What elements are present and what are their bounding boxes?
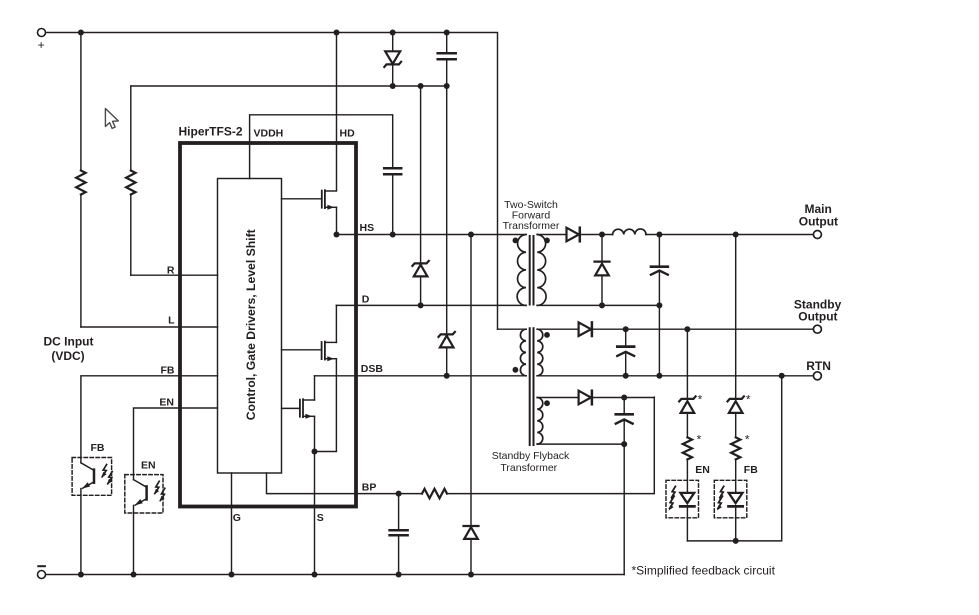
wire D pin xyxy=(336,304,526,306)
node junction standby output / EN branch xyxy=(684,326,690,332)
node junction RTN / main return xyxy=(656,373,662,379)
node junction input rail / R1 xyxy=(78,30,84,36)
svg-text:+: + xyxy=(38,38,45,52)
wire feedback common return xyxy=(687,376,781,541)
diode D1 forward rectifier xyxy=(567,228,579,242)
diode D5 clamp xyxy=(470,235,472,527)
wire S pin xyxy=(314,452,316,575)
light arrows into EN opto xyxy=(154,481,165,502)
node junction ground / FB opto xyxy=(78,572,84,578)
wire T1 secondary bottom xyxy=(537,304,659,306)
resistor R5 FB branch xyxy=(731,437,740,459)
svg-text:D: D xyxy=(362,293,370,305)
node junction main output / FB branch xyxy=(733,232,739,238)
wire top rail xyxy=(46,33,498,330)
LED U2 FB optocoupler diode xyxy=(714,480,747,518)
inductor L1 xyxy=(613,229,646,235)
wire standby secondary top xyxy=(537,328,578,330)
svg-text:G: G xyxy=(233,512,241,524)
svg-text:Control, Gate Drivers, Level S: Control, Gate Drivers, Level Shift xyxy=(244,229,258,420)
node junction ground / S pin xyxy=(312,572,318,578)
op-amp U1 HiperTFS-2 IC outline xyxy=(180,143,356,507)
capacitor C6 bias xyxy=(623,398,625,413)
wire HD pin xyxy=(336,33,338,191)
node junction forward return / D2 xyxy=(599,302,605,308)
wire EN sense branch xyxy=(686,329,688,399)
capacitor C1 xyxy=(384,167,401,170)
node junction ground / EN opto xyxy=(131,572,137,578)
diode D2 freewheel xyxy=(601,235,603,262)
node DC input minus terminal xyxy=(38,571,46,579)
zener VR1 xyxy=(392,33,394,52)
svg-text:BP: BP xyxy=(362,481,377,493)
node T1 secondary phase dot xyxy=(544,238,550,244)
node junction main output / C4 xyxy=(656,232,662,238)
wire bias winding bottom xyxy=(537,444,624,574)
node T2 primary phase dot xyxy=(513,367,519,373)
node junction sense rail / VR1 xyxy=(390,83,396,89)
svg-text:L: L xyxy=(168,315,175,327)
node junction forward return / C4 xyxy=(656,302,662,308)
node junction feedback common xyxy=(733,538,739,544)
node junction ground / clamp diode xyxy=(468,572,474,578)
node junction standby output / C5 xyxy=(623,326,629,332)
wire main output line xyxy=(646,234,813,236)
svg-text:*: * xyxy=(746,393,751,407)
svg-text:Output: Output xyxy=(798,310,837,324)
wire standby output line xyxy=(592,328,814,330)
svg-text:EN: EN xyxy=(159,397,174,409)
wire BP pin xyxy=(267,473,423,494)
node T2 bias winding phase dot xyxy=(544,400,550,406)
svg-text:DSB: DSB xyxy=(361,363,384,375)
node T2 standby secondary phase dot xyxy=(544,332,550,338)
node junction HS / Q1 source xyxy=(334,232,340,238)
mouse cursor xyxy=(105,109,118,129)
LED U3 EN optocoupler diode xyxy=(666,480,699,518)
wire bias winding top xyxy=(537,397,578,399)
node junction BP / C3 xyxy=(396,491,402,497)
node junction DSB / VR3 xyxy=(444,373,450,379)
node control block xyxy=(218,179,282,474)
svg-text:EN: EN xyxy=(695,464,710,476)
wire VDDH pin xyxy=(250,115,393,179)
diode D4 bias rectifier xyxy=(579,391,591,405)
wire bottom ground rail xyxy=(46,574,625,576)
resistor R1 xyxy=(80,33,82,171)
node DC input plus terminal xyxy=(38,29,46,37)
svg-text:HiperTFS-2: HiperTFS-2 xyxy=(179,125,243,139)
transistor Q2 low-side MOSFET xyxy=(282,349,322,351)
svg-text:HD: HD xyxy=(340,128,356,140)
node junction sense rail / VR2 xyxy=(418,83,424,89)
transformer T2 standby secondary winding xyxy=(537,329,543,376)
node junction HS / C1 xyxy=(390,232,396,238)
svg-text:FB: FB xyxy=(744,464,758,476)
transformer T1 two-switch forward : primary winding xyxy=(517,235,526,306)
svg-text:*: * xyxy=(697,433,702,447)
svg-text:FB: FB xyxy=(91,442,105,454)
node RTN terminal xyxy=(813,372,821,380)
node junction RTN / C5 xyxy=(623,373,629,379)
svg-text:*: * xyxy=(745,433,750,447)
node junction bias return / C6 xyxy=(621,441,627,447)
wire T1 secondary top to rectifier xyxy=(537,234,566,236)
diode D3 standby rectifier xyxy=(579,322,591,336)
svg-text:S: S xyxy=(317,512,324,524)
svg-text:HS: HS xyxy=(360,222,375,234)
svg-text:Transformer: Transformer xyxy=(500,462,557,474)
node junction ground / G pin xyxy=(229,572,235,578)
zener VR2 xyxy=(420,86,422,263)
node junction ground / C3 xyxy=(396,572,402,578)
capacitor C2 xyxy=(446,33,448,53)
resistor R3 BP series xyxy=(422,489,447,498)
node junction sense rail / C2 xyxy=(444,83,450,89)
wire FB pin to optocoupler xyxy=(81,376,218,463)
node main output terminal xyxy=(813,231,821,239)
svg-text:FB: FB xyxy=(161,364,175,376)
capacitor C3 BP bypass xyxy=(398,494,400,529)
node standby output terminal xyxy=(813,325,821,333)
svg-text:Standby Flyback: Standby Flyback xyxy=(492,450,570,462)
transformer T2 standby flyback : primary winding xyxy=(498,328,527,330)
node junction input rail / HD xyxy=(334,30,340,36)
svg-text:*: * xyxy=(698,393,703,407)
wire L pin xyxy=(81,326,218,328)
zener VR3 xyxy=(446,86,448,334)
transformer T1 core xyxy=(529,236,531,305)
capacitor C4 main output xyxy=(658,235,660,266)
wire BP to bias supply xyxy=(447,397,654,494)
light arrows into FB opto xyxy=(101,465,112,486)
capacitor C5 standby output xyxy=(625,329,627,345)
svg-text:Transformer: Transformer xyxy=(503,220,560,232)
transformer T2 bias winding xyxy=(537,398,543,445)
svg-text:EN: EN xyxy=(141,459,156,471)
node junction D / VR2 xyxy=(418,302,424,308)
node junction source node xyxy=(312,449,318,455)
node junction bias rail / C6 xyxy=(621,395,627,401)
wire G pin xyxy=(231,473,233,575)
resistor R2 xyxy=(130,86,132,171)
resistor R4 EN branch xyxy=(683,437,692,459)
node junction input rail / VR1 xyxy=(390,30,396,36)
transformer T1 secondary winding xyxy=(537,235,546,306)
svg-text:RTN: RTN xyxy=(806,359,831,373)
svg-text:VDDH: VDDH xyxy=(254,128,284,140)
wire FB sense branch xyxy=(735,235,737,399)
wire DSB pin xyxy=(315,375,527,377)
wire mid sense rail xyxy=(131,85,447,87)
zener VR4 EN branch xyxy=(679,396,695,401)
node junction RTN / feedback return xyxy=(779,373,785,379)
zener VR5 FB branch xyxy=(728,396,744,401)
svg-text:(VDC): (VDC) xyxy=(51,349,84,363)
wire RTN line xyxy=(537,375,813,377)
svg-text:R: R xyxy=(167,265,175,277)
transistor Q3 standby MOSFET xyxy=(282,407,300,409)
svg-text:Output: Output xyxy=(799,214,838,228)
transformer T2 core xyxy=(529,328,531,445)
wire R pin xyxy=(131,274,218,276)
svg-text:*Simplified feedback circuit: *Simplified feedback circuit xyxy=(632,564,776,578)
wire EN pin to optocoupler xyxy=(134,408,218,480)
transistor Q1 high-side MOSFET xyxy=(282,198,322,200)
wire HS pin xyxy=(337,234,527,236)
node junction HS / clamp diode xyxy=(468,232,474,238)
node junction input rail / C2 xyxy=(444,30,450,36)
svg-text:DC Input: DC Input xyxy=(44,335,94,349)
node T1 primary phase dot xyxy=(513,238,519,244)
node junction D1 / L1 / D2 xyxy=(599,232,605,238)
